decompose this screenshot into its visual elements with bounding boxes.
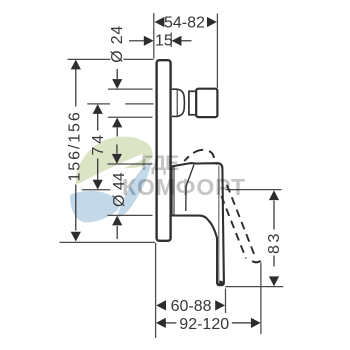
svg-text:156/156: 156/156 bbox=[67, 110, 84, 181]
dia24 bottom extension line bbox=[108, 116, 153, 118]
extension line 15 bbox=[170, 33, 172, 48]
83 bottom extension line bbox=[225, 286, 283, 288]
svg-text:15: 15 bbox=[155, 33, 173, 50]
handle paddle inner edge bbox=[218, 166, 220, 284]
83 top extension line bbox=[226, 189, 282, 191]
handle paddle tip fill bbox=[217, 281, 224, 286]
escutcheon ring edge bbox=[173, 166, 175, 215]
watermark logo blue drop bbox=[70, 191, 119, 223]
dimension 156/156 bbox=[71, 60, 81, 242]
svg-text:83: 83 bbox=[266, 231, 283, 254]
plate bottom extension line bbox=[60, 241, 156, 243]
wall plate bbox=[157, 60, 171, 241]
plate top extension line bbox=[68, 58, 154, 60]
connector small cylinder bbox=[189, 91, 196, 115]
60-88 right extension line bbox=[225, 289, 227, 314]
dashed paddle tip cap bbox=[252, 261, 260, 263]
handle axis extension line bbox=[82, 189, 111, 191]
handle neck crease bbox=[186, 165, 194, 211]
dia24 top extension line bbox=[108, 88, 153, 90]
dimension 92-120 bbox=[156, 318, 261, 328]
connector nose inner edge bbox=[176, 89, 178, 116]
extension lines thin bbox=[60, 13, 284, 338]
wall extension line top bbox=[153, 13, 155, 59]
dimension 83 bbox=[269, 190, 279, 286]
right extension line 54-82 bbox=[216, 14, 218, 89]
watermark logo green leaf bbox=[76, 137, 153, 188]
dimension 54-82 bbox=[155, 17, 217, 27]
dashed paddle right edge bbox=[227, 185, 255, 255]
watermark logo green vein bbox=[74, 154, 146, 191]
dimension 15 bbox=[129, 36, 192, 46]
connector big cylinder bbox=[196, 89, 217, 117]
connector centerline bbox=[87, 103, 153, 105]
dimension 74 bbox=[93, 104, 103, 189]
dimension 60-88 bbox=[156, 300, 225, 310]
pivot notch tick bbox=[215, 162, 217, 164]
svg-text:60-88: 60-88 bbox=[171, 298, 212, 315]
dashed handle arc position bbox=[184, 150, 214, 161]
dimension dia 24 bbox=[112, 69, 122, 137]
svg-text:92-120: 92-120 bbox=[179, 316, 229, 333]
92-120 right extension line bbox=[260, 263, 262, 335]
dia44 top extension line bbox=[108, 163, 153, 165]
dimension dia 44 bbox=[112, 145, 122, 240]
watermark text GDE bbox=[141, 152, 179, 175]
handle body bbox=[172, 163, 224, 285]
watermark logo blue streak bbox=[117, 161, 152, 218]
dashed paddle left edge bbox=[221, 196, 246, 258]
svg-text:Ø 24: Ø 24 bbox=[109, 25, 126, 63]
wall extension line bottom bbox=[155, 243, 157, 338]
svg-text:ГДЕ: ГДЕ bbox=[141, 152, 179, 175]
svg-text:54-82: 54-82 bbox=[164, 15, 205, 32]
watermark text KOMFORT bbox=[122, 174, 246, 200]
dia44 bottom extension line bbox=[108, 214, 153, 216]
connector nose cone bbox=[172, 89, 185, 116]
svg-text:74: 74 bbox=[90, 132, 107, 156]
svg-text:КОМФОРТ: КОМФОРТ bbox=[122, 174, 246, 200]
